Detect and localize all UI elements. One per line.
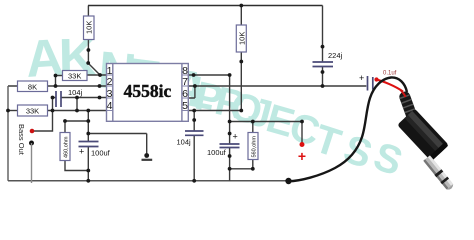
wire vertical x77 <box>76 98 78 111</box>
wire 560ohm leads <box>230 122 253 169</box>
wire pin1 <box>87 74 107 76</box>
wire 460ohm top <box>65 121 88 133</box>
left rail <box>7 86 9 181</box>
node pin4 wire <box>6 109 10 113</box>
ground <box>142 153 153 160</box>
wire 33K2 leads <box>8 110 18 112</box>
capacitor 0.1uf <box>359 71 397 91</box>
wire black cable from jack to bottom rail <box>289 77 408 181</box>
svg-text:10K: 10K <box>237 32 246 45</box>
wire 460ohm bottom <box>65 161 88 171</box>
svg-text:560,ohm: 560,ohm <box>252 136 258 158</box>
node Bass Out <box>17 124 34 183</box>
wire 224j top lead <box>322 6 324 62</box>
capacitor 104j #2 <box>177 131 204 147</box>
wire vertical x52.5 down to bass out <box>34 98 53 132</box>
wire 33K1 left <box>56 76 63 87</box>
node 224j <box>321 45 325 49</box>
wire vertical x88.3 (100uf1 top lead) <box>87 111 89 142</box>
node pin3 wire <box>51 96 55 100</box>
wire red node vertical <box>301 122 303 143</box>
svg-text:4558ic: 4558ic <box>124 81 172 101</box>
svg-text:Bass Out: Bass Out <box>17 124 26 156</box>
svg-text:+: + <box>359 73 364 83</box>
node 460ohm <box>63 119 67 123</box>
body hexagonal barrel <box>397 109 449 162</box>
op-amp U1 4558ic <box>107 64 189 122</box>
svg-text:33K: 33K <box>26 107 39 116</box>
svg-text:1: 1 <box>107 65 113 77</box>
resistor R 33K #1 <box>63 71 88 81</box>
svg-text:0.1uf: 0.1uf <box>383 71 397 77</box>
metal shaft <box>423 155 455 191</box>
resistor R 460ohm <box>60 133 70 161</box>
node top rail / 10K2 <box>239 4 243 8</box>
node output red <box>298 142 306 164</box>
svg-text:3: 3 <box>107 88 113 100</box>
node bottom rail <box>192 179 196 183</box>
capacitor 100uf #1 <box>79 142 111 158</box>
node pin7/pin6 <box>193 84 197 88</box>
wire 10K2 bottom lead <box>240 52 242 111</box>
wire pin6 jog <box>188 86 195 98</box>
spring strain relief <box>398 90 419 124</box>
watermark AK ATUAL PROJECTS <box>24 28 408 184</box>
wire pin5 <box>188 110 241 112</box>
resistor R 10K #2 <box>236 25 246 52</box>
svg-text:2: 2 <box>107 76 113 88</box>
capacitor 104j #1 <box>56 88 83 107</box>
wire diagonal to pin1 <box>88 63 100 75</box>
node pin5/104j2 <box>192 109 196 113</box>
wire pin3 <box>53 97 107 99</box>
svg-text:100uf: 100uf <box>207 148 227 157</box>
svg-text:8: 8 <box>182 65 188 77</box>
svg-text:+: + <box>233 132 238 142</box>
svg-text:8K: 8K <box>28 82 37 91</box>
wire pin4 <box>48 110 107 112</box>
node 10K2 bottom <box>239 60 243 64</box>
wire 104j2 leads <box>193 111 195 181</box>
wire vertical x229.6 <box>229 75 231 181</box>
wire 10K1 top lead <box>87 6 89 17</box>
svg-text:10K: 10K <box>85 21 94 34</box>
resistor R 8K <box>18 81 48 92</box>
wire 10K2 top lead <box>240 6 242 26</box>
wire pin8 <box>188 74 229 76</box>
node x229.6 560ohm return <box>228 167 232 171</box>
svg-text:104j: 104j <box>68 88 83 97</box>
wire 100uf1 bottom lead <box>87 147 89 181</box>
wire red to jack <box>377 80 404 92</box>
node 10K1 lead <box>87 48 91 52</box>
node pin8 <box>192 73 196 77</box>
node red after 0.1uf <box>374 77 378 81</box>
svg-text:5: 5 <box>182 100 188 112</box>
wire to ground <box>88 134 146 156</box>
wire 10K1 bottom lead <box>87 40 89 64</box>
node x229.6 rail <box>228 120 232 124</box>
wire 224j bottom lead <box>322 67 324 87</box>
top rail <box>88 5 323 7</box>
wire red tip on spring <box>401 90 406 97</box>
svg-text:+: + <box>298 148 306 164</box>
audio jack 3.5mm photo <box>397 90 455 191</box>
resistor R 33K #2 <box>18 105 48 116</box>
svg-text:100uf: 100uf <box>91 149 111 158</box>
svg-text:33K: 33K <box>68 72 81 81</box>
svg-text:104j: 104j <box>177 138 192 147</box>
wire 560ohm top rail to red node <box>230 121 302 123</box>
capacitor 100uf #2 <box>207 132 240 158</box>
node pin1 junction <box>98 73 102 77</box>
svg-text:460,ohm: 460,ohm <box>64 136 70 158</box>
svg-text:4: 4 <box>107 100 113 112</box>
wire pin2 <box>8 85 107 87</box>
svg-text:+: + <box>79 147 84 157</box>
svg-text:224j: 224j <box>328 51 343 60</box>
wire pin7 long rail <box>188 85 366 87</box>
bottom rail <box>8 180 289 182</box>
svg-text:6: 6 <box>182 88 188 100</box>
resistor R 10K #1 <box>84 16 95 40</box>
node 560ohm <box>251 120 255 124</box>
node 33K1/pin2 <box>54 74 58 78</box>
svg-text:7: 7 <box>182 76 188 88</box>
resistor R 560ohm <box>248 133 258 160</box>
capacitor 224j <box>313 51 343 67</box>
